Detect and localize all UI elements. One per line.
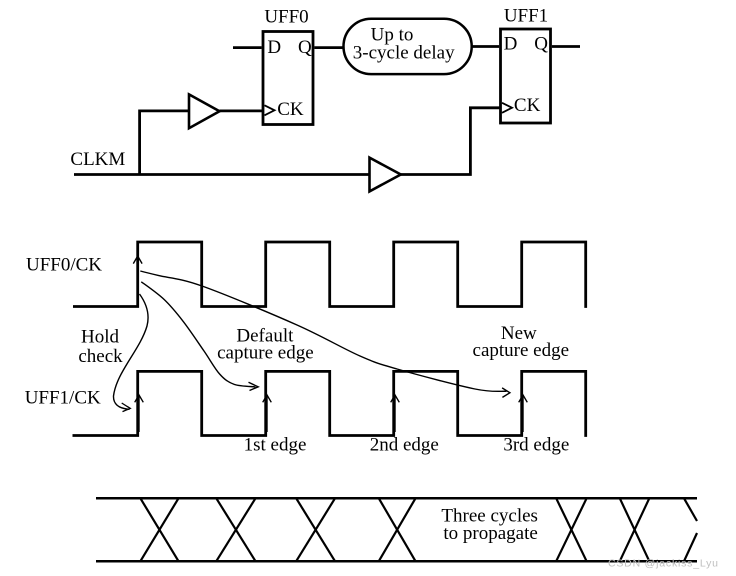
wire CLKM main — [74, 173, 370, 176]
svg-text:capture edge: capture edge — [473, 340, 570, 361]
curve new capture edge — [140, 271, 510, 397]
clock-pin triangle UFF0 — [265, 105, 275, 115]
bus crossover X6 — [620, 498, 650, 561]
svg-text:CLKM: CLKM — [70, 149, 125, 170]
clock-pin triangle UFF1 — [502, 103, 512, 113]
curve default capture edge — [141, 282, 258, 391]
svg-text:to propagate: to propagate — [443, 523, 537, 544]
svg-text:UFF0: UFF0 — [264, 7, 308, 28]
bus crossover X4 — [379, 498, 416, 561]
svg-text:UFF1/CK: UFF1/CK — [25, 388, 101, 409]
bus crossover X2 — [216, 498, 255, 561]
wire delay bubble to UFF1 D — [471, 45, 499, 48]
svg-text:3rd edge: 3rd edge — [503, 434, 569, 455]
svg-text:1st edge: 1st edge — [244, 434, 307, 455]
bus crossover X5 — [556, 498, 586, 561]
svg-text:D: D — [267, 37, 281, 58]
curve hold check — [113, 294, 148, 412]
flip-flop UFF1 — [501, 6, 551, 124]
svg-text:check: check — [78, 346, 123, 367]
wire D input stub UFF0 — [233, 46, 262, 49]
waveform UFF1/CK — [73, 371, 586, 437]
arrow 3rd capture edge UFF1 — [391, 395, 400, 432]
flip-flop UFF0 — [263, 7, 313, 125]
svg-text:CK: CK — [514, 95, 541, 116]
svg-text:Q: Q — [298, 37, 312, 58]
buffer B1 — [189, 94, 220, 128]
svg-text:UFF0/CK: UFF0/CK — [26, 254, 102, 275]
waveform UFF0/CK — [73, 242, 586, 308]
svg-text:Hold: Hold — [81, 326, 120, 347]
svg-text:3-cycle delay: 3-cycle delay — [353, 43, 455, 64]
wire UFF1 Q output stub — [552, 45, 580, 48]
arrow 4th capture edge UFF1 — [519, 395, 528, 432]
svg-text:D: D — [504, 34, 518, 55]
svg-text:capture edge: capture edge — [217, 343, 314, 364]
wire UFF0 Q to delay bubble — [314, 46, 344, 49]
svg-text:2nd edge: 2nd edge — [370, 434, 439, 455]
delay bubble U2 (Up to 3-cycle delay) — [344, 19, 472, 74]
arrow launch edge UFF0 — [133, 256, 142, 288]
arrow 1st capture edge UFF1 — [135, 395, 144, 432]
arrow 2nd capture edge UFF1 — [263, 395, 272, 432]
wire buffer B2 to UFF1 CK — [401, 108, 501, 175]
bus top rail — [96, 497, 697, 500]
wire riser CLKM to buffer B1 — [140, 111, 189, 175]
svg-text:CSDN @jackiss_Lyu: CSDN @jackiss_Lyu — [608, 558, 719, 570]
bus crossover X1 — [140, 498, 178, 561]
wire buffer B1 to UFF0 CK — [220, 110, 264, 113]
svg-text:UFF1: UFF1 — [504, 6, 548, 27]
svg-text:CK: CK — [277, 99, 304, 120]
bus bottom rail — [96, 560, 697, 563]
svg-text:Q: Q — [534, 34, 548, 55]
bus crossover X3 — [296, 498, 335, 561]
bus crossover X7 partial — [684, 498, 697, 561]
buffer B2 — [370, 158, 401, 192]
